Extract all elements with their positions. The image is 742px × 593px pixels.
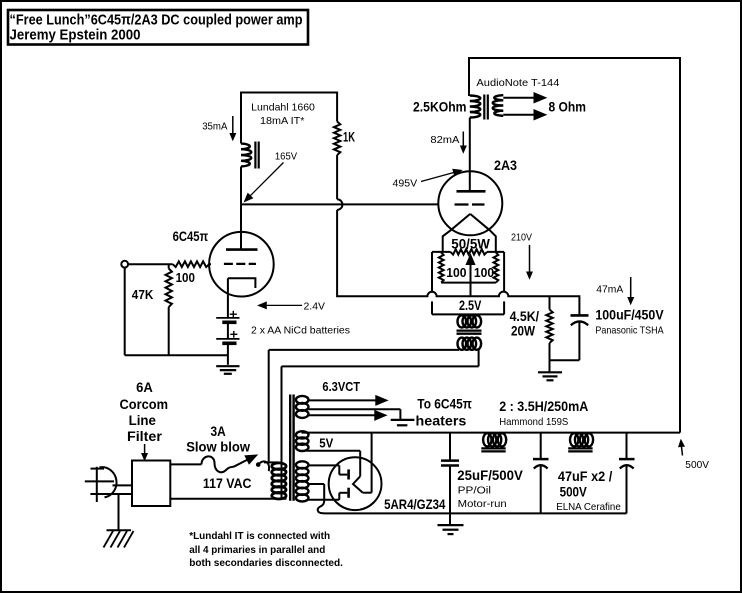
svg-text:2.4V: 2.4V xyxy=(304,301,326,312)
battery BT1 cell 1 xyxy=(216,317,239,319)
resistor 50/5W xyxy=(432,251,451,253)
tube V3 5AR4 envelope xyxy=(329,457,382,510)
svg-text:ELNA Cerafine: ELNA Cerafine xyxy=(556,502,621,513)
hum pot box left edge xyxy=(431,252,433,291)
wire cathode lead xyxy=(227,278,229,317)
tube V2 2A3 envelope xyxy=(438,171,502,235)
svg-text:both secondaries disconnected.: both secondaries disconnected. xyxy=(189,558,343,569)
wire plug to filter xyxy=(113,484,133,486)
inductor L1 core xyxy=(254,142,256,169)
inductor L2 core xyxy=(481,447,505,449)
inductor L3 core xyxy=(568,447,592,449)
wire 4.5K to cap bottom xyxy=(550,359,580,361)
svg-text:Lundahl 1660: Lundahl 1660 xyxy=(251,102,315,113)
svg-text:6A: 6A xyxy=(136,380,153,395)
svg-text:AudioNote T-144: AudioNote T-144 xyxy=(476,78,559,89)
wire 6.3V bottom to heaters xyxy=(308,414,375,416)
svg-text:117 VAC: 117 VAC xyxy=(203,476,252,491)
wire T2 primary left lead xyxy=(269,349,459,351)
svg-text:Motor-run: Motor-run xyxy=(458,499,507,510)
arrow filter pointer xyxy=(144,444,146,456)
svg-text:50/5W: 50/5W xyxy=(451,236,490,251)
svg-text:25uF/500V: 25uF/500V xyxy=(457,468,523,483)
transformer T1 output AudioNote T-144 primary xyxy=(470,96,481,118)
svg-text:3A: 3A xyxy=(211,424,226,439)
voltage label 500V with arrow xyxy=(681,445,682,456)
svg-text:To 6C45π: To 6C45π xyxy=(417,396,472,411)
fuse F1 3A xyxy=(202,456,234,472)
svg-text:5V: 5V xyxy=(319,437,334,451)
svg-text:Line: Line xyxy=(129,413,157,428)
wire B+ loop top and right edge xyxy=(469,58,680,433)
capacitor C4 47uF second xyxy=(626,433,628,459)
transformer T2 primary winding xyxy=(458,338,467,350)
wire input down leg xyxy=(124,268,126,356)
wire filter to primary bottom xyxy=(170,498,286,500)
wire plug ground drop xyxy=(118,494,120,530)
resistor 100 left xyxy=(439,253,444,283)
title box xyxy=(8,10,308,45)
wire mains drop left xyxy=(268,350,270,462)
ground earth mains xyxy=(107,529,132,531)
wire between cells xyxy=(227,322,229,338)
svg-text:210V: 210V xyxy=(511,233,532,244)
svg-text:PP/Oil: PP/Oil xyxy=(458,485,491,496)
wire B+ rail xyxy=(302,432,681,434)
svg-text:Jeremy Epstein 2000: Jeremy Epstein 2000 xyxy=(10,28,141,44)
tube V1 6C45pi envelope xyxy=(209,232,274,297)
line filter box xyxy=(132,461,170,507)
wire 6C45 plate to 2A3 grid xyxy=(241,203,439,205)
tube V1 plate bar xyxy=(226,248,258,251)
ground 4.5K xyxy=(538,371,562,373)
plug P1 xyxy=(96,467,98,502)
battery BT1 cell 2 xyxy=(216,338,239,340)
transformer T3 primary winding xyxy=(272,463,286,470)
svg-text:Panasonic TSHA: Panasonic TSHA xyxy=(595,325,663,336)
tube V3 filament xyxy=(353,476,363,492)
svg-text:Slow blow: Slow blow xyxy=(186,439,250,454)
wire 5V bottom to filament xyxy=(306,450,360,452)
capacitor C2 25uF/500V xyxy=(449,433,451,461)
wire L1 to plate junction xyxy=(240,167,242,205)
wire HV bottom to anode 2 xyxy=(308,499,339,501)
svg-text:6.3VCT: 6.3VCT xyxy=(322,380,360,394)
wire 6.3V CT to ground xyxy=(308,408,400,410)
svg-text:20W: 20W xyxy=(511,323,535,338)
wire B+ tap to filament xyxy=(371,433,373,493)
wire HV top to anode 1 xyxy=(308,464,339,466)
svg-text:35mA: 35mA xyxy=(202,122,228,133)
capacitor C1 100uF/450V xyxy=(571,314,589,317)
tube V3 anode 2 bar xyxy=(347,488,350,498)
transformer T1 core xyxy=(483,95,485,120)
svg-text:2.5V: 2.5V xyxy=(459,298,481,313)
svg-text:100: 100 xyxy=(176,271,195,285)
voltage label 2.4V with arrow xyxy=(258,302,266,309)
transformer T3 6.3VCT winding xyxy=(296,396,309,404)
svg-text:4.5K/: 4.5K/ xyxy=(510,309,540,324)
transformer T2 core xyxy=(457,329,482,331)
hum pot box right edge xyxy=(503,252,505,291)
wire HV CT down xyxy=(308,483,324,485)
ground battery xyxy=(216,365,239,367)
wire mains drop right xyxy=(281,366,283,498)
svg-text:Hammond 159S: Hammond 159S xyxy=(499,417,568,428)
resistor R2 100 grid stopper xyxy=(173,261,210,267)
transformer T3 core xyxy=(289,395,291,501)
transformer T1 secondary xyxy=(493,95,504,116)
wire 1K lead with hop over grid wire xyxy=(336,155,338,199)
capacitor C3 47uF first xyxy=(540,433,542,459)
wire secondary bottom lead to 8 ohm xyxy=(503,114,535,116)
inductor L2 choke 1 xyxy=(483,433,491,446)
tube V2 grid dashes xyxy=(455,203,485,205)
wire ground return rail xyxy=(318,484,627,513)
svg-text:1K: 1K xyxy=(343,130,355,145)
svg-text:*Lundahl IT is connected with: *Lundahl IT is connected with xyxy=(189,531,330,542)
inductor L3 choke 2 xyxy=(570,433,578,446)
svg-text:2.5KOhm: 2.5KOhm xyxy=(413,100,467,115)
tube V2 plate bar xyxy=(457,190,486,193)
svg-text:18mA IT*: 18mA IT* xyxy=(260,116,305,127)
svg-text:2 x AA NiCd batteries: 2 x AA NiCd batteries xyxy=(251,326,350,337)
svg-text:165V: 165V xyxy=(275,151,298,162)
svg-text:47K: 47K xyxy=(132,288,154,302)
svg-text:Corcom: Corcom xyxy=(120,397,169,412)
svg-text:heaters: heaters xyxy=(416,414,467,429)
transformer T3 5V winding xyxy=(296,431,309,438)
input terminal xyxy=(121,261,128,268)
wire input to grid stopper xyxy=(128,263,173,265)
switch arm with arrow xyxy=(234,460,248,467)
wire hum pot bottom rail xyxy=(441,282,496,284)
wire stopper to grid xyxy=(209,263,211,265)
tube V2 filament xyxy=(443,214,471,252)
svg-text:100: 100 xyxy=(446,266,466,280)
svg-text:6C45π: 6C45π xyxy=(173,229,209,244)
wire input ground rail xyxy=(125,354,228,356)
tube V1 grid dashes xyxy=(224,263,256,265)
svg-text:500V: 500V xyxy=(685,460,709,471)
svg-text:2A3: 2A3 xyxy=(494,158,517,173)
svg-text:100: 100 xyxy=(474,266,494,280)
resistor R4 4.5K/20W xyxy=(549,296,551,309)
wire battery to ground xyxy=(227,343,229,365)
resistor R1 47K grid leak xyxy=(168,264,170,268)
hum pot box bottom edge xyxy=(432,313,504,315)
wire 1K to cathode node xyxy=(337,210,579,315)
svg-text:495V: 495V xyxy=(393,179,418,190)
svg-text:“Free Lunch”6C45π/2A3 DC coupl: “Free Lunch”6C45π/2A3 DC coupled power a… xyxy=(10,13,303,29)
wire secondary top lead to 8 ohm xyxy=(503,97,535,99)
resistor R3 1K xyxy=(334,122,340,156)
ground main filter xyxy=(449,513,451,524)
tube V1 plate lead xyxy=(240,204,242,249)
wire cathode return with up arrow xyxy=(470,258,472,297)
wire primary top stub xyxy=(264,461,278,463)
svg-text:2 : 3.5H/250mA: 2 : 3.5H/250mA xyxy=(499,399,588,414)
tube V3 anode 1 bar xyxy=(347,469,350,479)
switch contact hook xyxy=(256,463,260,467)
svg-text:100uF/450V: 100uF/450V xyxy=(595,308,663,323)
svg-text:all 4 primaries in parallel an: all 4 primaries in parallel and xyxy=(189,545,325,556)
wire Lundahl top loop xyxy=(241,93,337,144)
svg-text:500V: 500V xyxy=(560,484,587,499)
wire 2A3 plate lead xyxy=(469,118,471,192)
ground heater CT xyxy=(391,419,415,421)
resistor 100 right xyxy=(494,253,499,283)
wire T2 primary right lead xyxy=(478,348,480,366)
wire 6.3V top to heaters xyxy=(308,399,376,401)
svg-text:8 Ohm: 8 Ohm xyxy=(549,100,587,115)
svg-text:82mA: 82mA xyxy=(430,135,459,146)
transformer T3 HV winding xyxy=(296,461,309,468)
wire filter to fuse xyxy=(170,463,201,465)
transformer T2 filament 2.5V winding xyxy=(458,315,467,327)
tube V1 cathode xyxy=(228,278,256,288)
svg-text:5AR4/GZ34: 5AR4/GZ34 xyxy=(384,497,446,512)
svg-text:47mA: 47mA xyxy=(596,285,623,296)
svg-text:Filter: Filter xyxy=(127,429,163,444)
svg-text:47uF x2 /: 47uF x2 / xyxy=(558,469,613,484)
inductor L1 Lundahl 1660 winding xyxy=(241,144,251,167)
